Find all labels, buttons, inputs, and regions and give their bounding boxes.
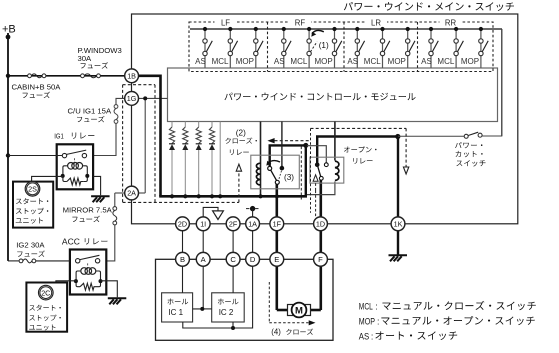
svg-text:1A: 1A [248, 219, 257, 228]
svg-text:ACC: ACC [62, 237, 80, 246]
svg-text:2A: 2A [127, 189, 136, 198]
svg-text:AS: AS [274, 57, 285, 66]
svg-text:MCL: MCL [290, 57, 307, 66]
svg-text:IC 1: IC 1 [168, 308, 183, 317]
svg-text::: : [377, 316, 379, 326]
svg-text:C: C [230, 255, 236, 264]
svg-text:1D: 1D [316, 219, 325, 228]
svg-text:RF: RF [295, 18, 306, 27]
svg-text:MOP: MOP [388, 57, 406, 66]
svg-text:+B: +B [2, 24, 16, 36]
svg-text:AS: AS [421, 57, 432, 66]
svg-text::: : [375, 302, 377, 312]
svg-text:AS: AS [195, 57, 206, 66]
svg-text:AS: AS [347, 57, 358, 66]
svg-text:MOP: MOP [314, 57, 332, 66]
svg-text:30A: 30A [78, 54, 93, 63]
svg-text:AS: AS [359, 331, 370, 341]
svg-text:MCL: MCL [437, 57, 454, 66]
svg-text:C/U IG1 15A: C/U IG1 15A [68, 107, 112, 116]
svg-text:(2): (2) [236, 128, 246, 137]
svg-text:1K: 1K [394, 219, 403, 228]
svg-text:MIRROR 7.5A: MIRROR 7.5A [63, 206, 113, 215]
svg-text:M: M [295, 305, 303, 316]
svg-text:2S: 2S [28, 185, 37, 194]
svg-text:MOP: MOP [359, 316, 375, 326]
svg-text:(4): (4) [271, 328, 281, 337]
svg-text:1F: 1F [273, 219, 282, 228]
svg-text:IG2 30A: IG2 30A [16, 241, 45, 250]
svg-text:IC 2: IC 2 [219, 308, 234, 317]
svg-text:MCL: MCL [212, 57, 229, 66]
svg-text:MCL: MCL [359, 302, 373, 312]
svg-text:(1): (1) [319, 41, 329, 50]
svg-text:2D: 2D [178, 219, 187, 228]
svg-text:LR: LR [371, 18, 381, 27]
svg-text:MOP: MOP [236, 57, 254, 66]
svg-text:IG1: IG1 [54, 131, 64, 140]
svg-text:B: B [180, 255, 185, 264]
svg-text:2C: 2C [41, 289, 50, 298]
svg-text::: : [371, 331, 373, 341]
svg-text:1G: 1G [127, 94, 137, 103]
svg-text:RR: RR [445, 18, 457, 27]
svg-text:MCL: MCL [364, 57, 381, 66]
svg-text:2F: 2F [229, 219, 238, 228]
svg-text:CABIN+B 50A: CABIN+B 50A [12, 82, 62, 91]
svg-text:(3): (3) [284, 173, 294, 182]
svg-text:E: E [274, 255, 279, 264]
svg-text:D: D [250, 255, 256, 264]
svg-text:1B: 1B [127, 71, 136, 80]
svg-text:LF: LF [221, 18, 230, 27]
svg-text:MOP: MOP [461, 57, 479, 66]
svg-text:1I: 1I [200, 219, 206, 228]
svg-text:F: F [318, 255, 323, 264]
